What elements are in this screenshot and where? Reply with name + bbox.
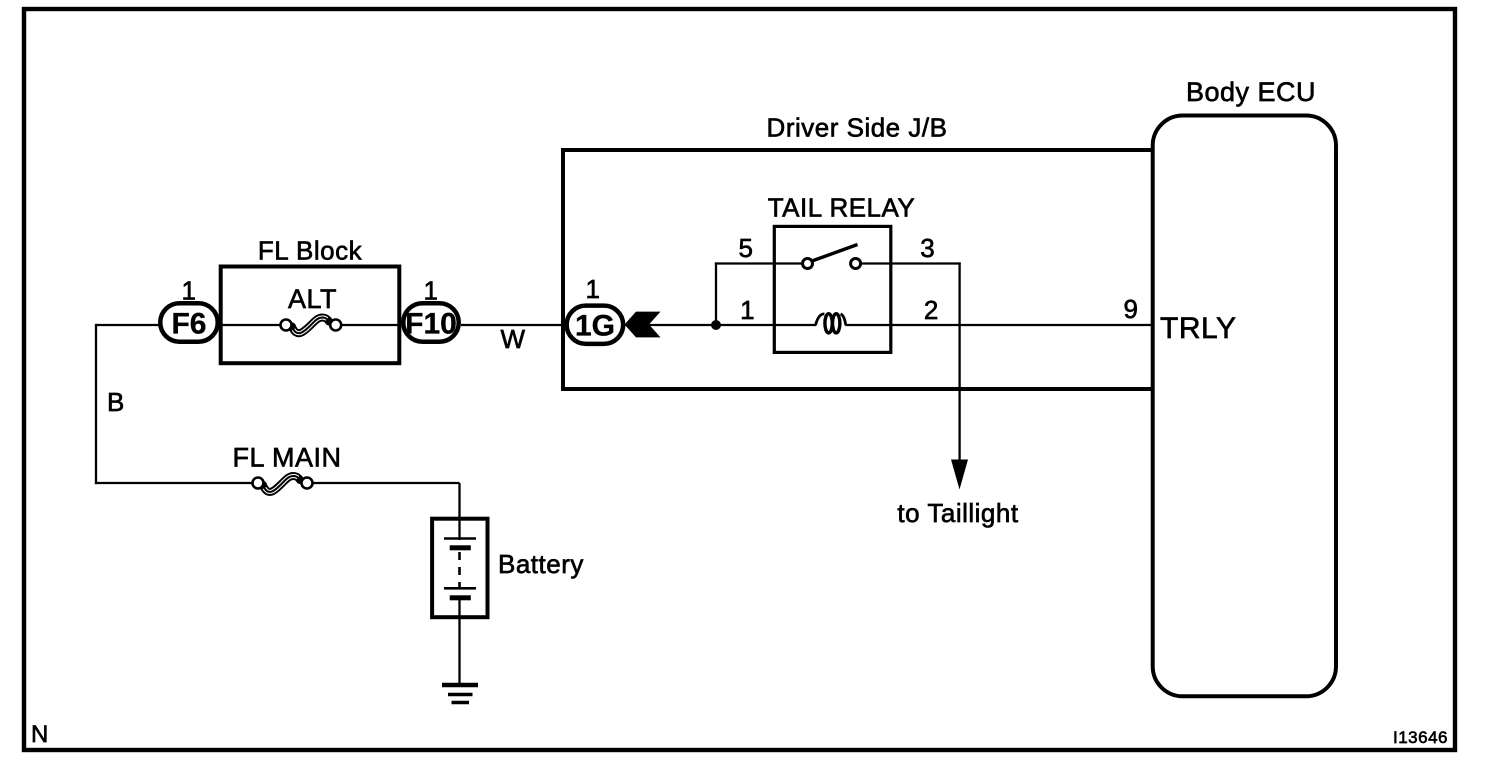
relay switch lever xyxy=(812,245,858,262)
wire pin3 horizontal xyxy=(861,262,961,264)
wire W (F10 to 1G) xyxy=(461,324,566,326)
wire through FL Block xyxy=(219,324,283,326)
svg-text:to Taillight: to Taillight xyxy=(897,498,1018,528)
svg-text:2: 2 xyxy=(924,295,939,325)
fuse ALT terminal circles xyxy=(281,320,292,331)
wire main (1G to Body ECU) xyxy=(625,324,816,326)
svg-text:FL MAIN: FL MAIN xyxy=(232,443,341,473)
svg-text:FL Block: FL Block xyxy=(258,236,363,266)
connector F10 xyxy=(403,303,459,342)
wire FL MAIN horizontal xyxy=(95,482,255,484)
Body ECU box xyxy=(1153,116,1336,697)
svg-text:3: 3 xyxy=(920,233,935,263)
svg-text:1: 1 xyxy=(586,274,601,304)
wire battery to ground xyxy=(458,600,460,685)
battery dashed link xyxy=(458,552,461,588)
wire B vertical xyxy=(95,324,97,484)
fuse ALT squiggle xyxy=(292,316,329,335)
svg-text:F6: F6 xyxy=(171,308,206,341)
Driver Side J/B box xyxy=(561,148,1151,389)
svg-text:B: B xyxy=(107,387,125,417)
svg-text:1: 1 xyxy=(424,276,439,306)
relay TAIL RELAY box xyxy=(774,226,891,352)
svg-text:F10: F10 xyxy=(405,308,457,341)
svg-text:5: 5 xyxy=(739,233,754,263)
battery cell 2 short plate xyxy=(450,595,471,600)
fuse FL MAIN squiggle xyxy=(263,475,300,494)
arrowhead to taillight xyxy=(951,460,968,490)
battery BAT box xyxy=(432,519,487,618)
battery cell 2 long plate xyxy=(444,587,476,590)
svg-text:Battery: Battery xyxy=(498,549,584,579)
svg-text:N: N xyxy=(31,721,49,748)
svg-text:1: 1 xyxy=(740,295,755,325)
FL Block box xyxy=(221,267,400,364)
relay coil xyxy=(816,314,846,333)
battery cell 1 short plate xyxy=(450,545,471,550)
svg-text:Body ECU: Body ECU xyxy=(1186,77,1316,107)
wire pin5 horizontal xyxy=(715,262,803,264)
svg-text:TRLY: TRLY xyxy=(1160,312,1236,345)
svg-text:1: 1 xyxy=(182,276,197,306)
svg-text:I13646: I13646 xyxy=(1393,728,1448,747)
connector F6 xyxy=(160,303,218,342)
svg-text:1G: 1G xyxy=(575,310,615,343)
wire B horizontal (frame side to F6) xyxy=(96,324,160,326)
relay switch contact circles xyxy=(803,259,813,269)
fuse FL MAIN terminal circles xyxy=(253,478,264,489)
svg-text:Driver Side J/B: Driver Side J/B xyxy=(767,113,948,143)
svg-text:TAIL RELAY: TAIL RELAY xyxy=(768,193,916,223)
wire pin5 vertical xyxy=(715,262,717,325)
arrowhead at 1G xyxy=(625,312,661,338)
svg-text:ALT: ALT xyxy=(288,284,337,314)
battery cell 1 long plate xyxy=(444,537,476,540)
svg-text:9: 9 xyxy=(1124,294,1139,324)
svg-text:W: W xyxy=(500,324,525,354)
junction node dot xyxy=(711,320,721,330)
ground symbol xyxy=(442,683,478,688)
connector 1G xyxy=(567,306,624,344)
wire battery feed xyxy=(458,483,460,540)
wire pin3 vertical down to taillight xyxy=(958,262,960,462)
